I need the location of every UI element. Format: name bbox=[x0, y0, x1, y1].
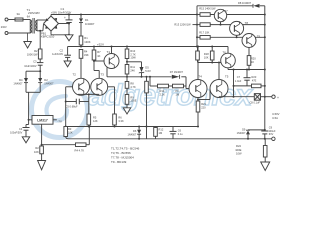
svg-text:R6: R6 bbox=[118, 115, 122, 119]
node rail collector joins bbox=[264, 14, 266, 16]
wire R8 R9 bbox=[126, 88, 128, 94]
svg-text:T5: T5 bbox=[225, 75, 229, 79]
diode D7 1N4007 bbox=[172, 75, 180, 79]
transformer T1 230V/48V bbox=[29, 20, 31, 34]
svg-text:1M: 1M bbox=[159, 131, 163, 135]
resistor R16 bbox=[200, 23, 210, 27]
node D5 bottom bbox=[141, 76, 143, 78]
svg-text:D2: D2 bbox=[44, 78, 48, 82]
input terminal live bbox=[5, 18, 8, 21]
svg-text:C8 0.1uF: C8 0.1uF bbox=[250, 102, 261, 105]
wire R3 curve to L2 bbox=[66, 137, 69, 139]
transistor T6 BC556 bbox=[221, 53, 236, 68]
svg-text:100E: 100E bbox=[235, 148, 241, 152]
svg-text:1N4007: 1N4007 bbox=[85, 22, 95, 26]
wire R17 row collector row T9 bbox=[210, 36, 265, 38]
svg-text:R3: R3 bbox=[68, 127, 72, 131]
capacitor C6 bbox=[172, 127, 174, 132]
node R20 bottom bbox=[248, 69, 250, 71]
transistor T2 BC546 bbox=[73, 78, 90, 95]
wire R24 ground bbox=[264, 157, 266, 162]
svg-text:2.2K: 2.2K bbox=[160, 92, 166, 96]
wire emitter bracket bbox=[78, 93, 99, 95]
wire T2 base bbox=[66, 86, 73, 88]
wire R21 L1 bbox=[197, 112, 199, 127]
wire R10 R11 bbox=[126, 59, 128, 65]
node T1 base tee bbox=[93, 60, 95, 62]
node right rail wires bbox=[264, 69, 266, 71]
wire R4b to T2 bbox=[80, 58, 82, 78]
wire T5 base bbox=[198, 99, 210, 101]
resistor R20 1K bbox=[247, 56, 251, 66]
transistor T4 BC546 bbox=[189, 80, 207, 98]
wire emitter row y69.5 bbox=[228, 69, 265, 71]
node bus R16 row bbox=[196, 24, 198, 26]
svg-text:100uF/50V: 100uF/50V bbox=[10, 131, 23, 134]
transistor T8 MJ15004 bbox=[230, 21, 244, 35]
wire tee to D4 bbox=[26, 70, 40, 72]
node R11 wire bbox=[126, 76, 128, 78]
node R18 rail2 bbox=[197, 46, 199, 48]
diode D2 1N4007 bbox=[39, 71, 41, 78]
svg-text:230V: 230V bbox=[1, 26, 7, 29]
ground R2b bbox=[38, 161, 46, 170]
node L1 left bbox=[65, 126, 67, 128]
resistor R3 10K bbox=[64, 127, 68, 137]
wire T1 emitter bbox=[106, 67, 108, 77]
wire R9 ground bbox=[126, 104, 128, 108]
svg-text:130K: 130K bbox=[84, 40, 90, 44]
wire T6 emitter bbox=[227, 68, 229, 70]
resistor R10 2.7K 10W bbox=[126, 47, 128, 50]
wire top D8 row bbox=[197, 5, 253, 7]
node LM317 input bbox=[28, 119, 30, 121]
wire C5 row bbox=[66, 101, 76, 103]
pin LM317 adj bbox=[41, 124, 43, 145]
svg-text:C9: C9 bbox=[269, 125, 273, 129]
diode D4 1N4007 bbox=[24, 78, 28, 82]
capacitor C3 10uF/100V bbox=[37, 62, 43, 64]
svg-text:R7: R7 bbox=[97, 50, 101, 54]
svg-text:T7,T8 - MJ15004: T7,T8 - MJ15004 bbox=[111, 155, 134, 159]
svg-text:R20: R20 bbox=[251, 56, 256, 60]
ground C4 bbox=[22, 137, 30, 143]
svg-text:D7 1N4007: D7 1N4007 bbox=[170, 70, 184, 74]
diode D1 1N4007 bbox=[80, 15, 82, 19]
transistor T7 MJ15004 bbox=[214, 9, 226, 21]
fuse F1 3A bbox=[15, 18, 23, 21]
svg-text:4.7K: 4.7K bbox=[130, 85, 136, 89]
ground C2 bbox=[64, 61, 71, 67]
wire T5 emitter bbox=[218, 96, 220, 99]
pin LM317 in bbox=[29, 119, 32, 121]
node C1 top bbox=[68, 14, 70, 16]
svg-text:3.3K: 3.3K bbox=[118, 119, 124, 123]
svg-text:33K: 33K bbox=[84, 53, 89, 57]
wire D2 D4 join bbox=[26, 91, 40, 93]
wire T4 base bbox=[185, 77, 187, 89]
transistor T5 BC546 bbox=[210, 80, 228, 98]
node D6 L1 bbox=[138, 126, 140, 128]
resistor R23 47E bbox=[252, 84, 262, 88]
node C9 L2 bbox=[264, 138, 266, 140]
node R21 L1 bbox=[197, 126, 199, 128]
svg-text:D1: D1 bbox=[85, 18, 89, 22]
wire row y86 bbox=[149, 77, 151, 86]
capacitor C7 1uF bbox=[246, 70, 248, 78]
svg-text:6A: 6A bbox=[27, 14, 30, 18]
wire R5 L1 bbox=[88, 125, 90, 127]
wire R20 down bbox=[248, 65, 250, 69]
wire T7 emitter drop bbox=[220, 22, 222, 25]
node row stub bbox=[149, 76, 151, 78]
fuse C8 box bbox=[254, 94, 260, 101]
node emitter join bbox=[88, 93, 90, 95]
svg-text:1M: 1M bbox=[176, 92, 180, 96]
svg-text:R17 10K: R17 10K bbox=[199, 31, 209, 35]
node C1 bottom bbox=[68, 23, 70, 25]
svg-text:1N4007: 1N4007 bbox=[44, 81, 54, 85]
svg-text:LM317: LM317 bbox=[37, 119, 48, 123]
wire R2b to ground bbox=[41, 154, 43, 161]
svg-text:R1: R1 bbox=[84, 36, 88, 40]
svg-text:T4: T4 bbox=[199, 75, 203, 79]
resistor R2 100K/1W bbox=[38, 49, 42, 59]
ground C1 bbox=[65, 35, 73, 41]
wire T8 emitter drop bbox=[236, 35, 238, 37]
wire T1 collector bbox=[111, 47, 113, 54]
wire rail L2 bbox=[69, 138, 272, 140]
resistor R1 130K bbox=[79, 36, 83, 45]
resistor R4 4.7K bbox=[76, 143, 87, 147]
wire zobel row bbox=[234, 85, 252, 87]
wire R16 row collector row T8 bbox=[210, 24, 265, 26]
svg-text:T6: T6 bbox=[223, 50, 227, 54]
svg-text:3A: 3A bbox=[17, 12, 21, 16]
wire secondary top to bridge bbox=[37, 19, 47, 21]
resistor R14 2.2K bbox=[158, 84, 169, 88]
svg-text:R5: R5 bbox=[93, 115, 97, 119]
svg-text:R23: R23 bbox=[252, 75, 257, 79]
resistor R8 4.7K bbox=[126, 77, 128, 82]
node T7 emitter bbox=[220, 24, 222, 26]
node R19 base row bbox=[211, 62, 213, 64]
wire T6 collector bbox=[227, 47, 229, 54]
svg-text:R11: R11 bbox=[130, 65, 135, 69]
svg-text:+: + bbox=[277, 96, 279, 100]
resistor R7 1K bbox=[93, 47, 95, 51]
svg-text:C6: C6 bbox=[178, 129, 182, 133]
bridge rectifier PB1 bbox=[51, 16, 59, 24]
wire live to fuse bbox=[8, 19, 15, 21]
wire rail L1 bbox=[66, 126, 198, 128]
node C5 join bbox=[65, 101, 67, 103]
svg-text:47E: 47E bbox=[252, 80, 257, 83]
ground R24 bbox=[261, 162, 270, 171]
node output riser bottom bbox=[233, 96, 235, 98]
svg-text:10K: 10K bbox=[34, 150, 39, 154]
resistor R17 bbox=[200, 36, 210, 40]
resistor R18 10K bbox=[197, 47, 199, 52]
svg-text:T9: T9 bbox=[257, 35, 261, 39]
svg-text:R13 120K/1W: R13 120K/1W bbox=[174, 23, 191, 27]
resistor R11 24K bbox=[125, 65, 129, 75]
svg-text:1K: 1K bbox=[251, 60, 254, 64]
svg-text:T9 - BD139: T9 - BD139 bbox=[111, 160, 127, 164]
wire top rail +56V bbox=[51, 14, 197, 16]
svg-text:+: + bbox=[64, 16, 66, 20]
svg-text:12K: 12K bbox=[93, 119, 98, 123]
node R7 rail2 bbox=[93, 46, 95, 48]
node R16b L1 bbox=[146, 126, 148, 128]
output terminal negative bbox=[272, 137, 275, 140]
wire bridge minus down bbox=[50, 31, 52, 35]
node bus rail1 bbox=[196, 14, 198, 16]
svg-text:T3: T3 bbox=[101, 72, 105, 76]
wire R4 to riser bbox=[86, 144, 89, 146]
wire secondary to R2 bbox=[39, 31, 41, 49]
diode D8 1N4007 bbox=[253, 4, 259, 8]
zener D5 5.6V bbox=[140, 67, 144, 72]
capacitor C9 100uF bbox=[261, 130, 268, 132]
wire output riser bbox=[233, 70, 235, 97]
node T5 base tee bbox=[197, 99, 199, 101]
wire to C4 bbox=[26, 124, 29, 126]
diode D9 1N4007 bbox=[247, 129, 249, 131]
capacitor C2 1uF/100V bbox=[64, 54, 71, 56]
wire T6 base row bbox=[198, 62, 221, 64]
transistor T9 BD139 bbox=[242, 34, 256, 48]
wire bridge ac right bbox=[59, 23, 70, 25]
wire T3 base bbox=[108, 86, 115, 88]
wire R17 stub bbox=[197, 36, 200, 38]
node D5 tee bbox=[126, 61, 128, 63]
ground R9 bbox=[123, 108, 131, 114]
node R10 rail2 bbox=[126, 46, 128, 48]
input terminal neutral bbox=[5, 32, 8, 35]
node D4 tee bbox=[39, 70, 41, 72]
resistor R21 220 bbox=[196, 101, 200, 112]
svg-text:10uF/100V: 10uF/100V bbox=[24, 65, 37, 68]
svg-text:D9: D9 bbox=[242, 127, 246, 131]
wire neutral to transformer bbox=[8, 32, 30, 34]
wire R7 to T3 collector bbox=[93, 60, 95, 71]
node T8 emitter bbox=[236, 36, 238, 38]
svg-text:R4 4.7K: R4 4.7K bbox=[75, 149, 85, 153]
transistor T1 BC546 bbox=[104, 54, 119, 69]
svg-text:0.1u: 0.1u bbox=[178, 133, 183, 136]
node D6 L2 bbox=[138, 138, 140, 140]
svg-text:T7: T7 bbox=[224, 9, 228, 13]
wire bus bbox=[196, 6, 198, 47]
wire R15 to T7 and collector row bbox=[210, 14, 265, 16]
node bus rail2 bbox=[196, 46, 198, 48]
svg-text:1uF/100V: 1uF/100V bbox=[52, 53, 63, 56]
svg-text:C7: C7 bbox=[237, 75, 241, 79]
svg-text:T1,T2,T4,T5 - BC546: T1,T2,T4,T5 - BC546 bbox=[111, 146, 140, 150]
svg-text:10K: 10K bbox=[204, 55, 209, 59]
svg-text:D6: D6 bbox=[133, 129, 137, 133]
resistor R6 3.3K bbox=[113, 114, 117, 125]
wire R13 stub bbox=[193, 24, 198, 26]
capacitor C5 0.68uF bbox=[75, 99, 77, 105]
wire R16 stub bbox=[197, 24, 200, 26]
node secondary-R2 bbox=[39, 30, 41, 32]
svg-text:+52V: +52V bbox=[97, 42, 104, 46]
svg-text:1K: 1K bbox=[97, 54, 100, 58]
svg-text:100K/1W: 100K/1W bbox=[27, 53, 38, 57]
node T5 collector bbox=[218, 62, 220, 64]
wire R1 to rail2 bbox=[80, 45, 82, 47]
ground transformer frame bbox=[27, 33, 29, 42]
svg-text:D5: D5 bbox=[145, 66, 149, 70]
wire fuse to transformer bbox=[23, 19, 30, 21]
svg-text:10K: 10K bbox=[68, 131, 73, 135]
wire T4 collector bbox=[197, 47, 199, 80]
node bus R17 row bbox=[196, 36, 198, 38]
svg-text:63V: 63V bbox=[269, 133, 274, 136]
diode D6 1N4007 bbox=[138, 127, 140, 130]
node output riser top bbox=[233, 69, 235, 71]
capacitor C4 100uF/50V bbox=[23, 127, 30, 129]
wire D9 tie bbox=[248, 129, 265, 131]
svg-text:0-50V: 0-50V bbox=[272, 112, 279, 116]
wire T5 collector bbox=[218, 63, 220, 80]
svg-text:R18: R18 bbox=[204, 52, 209, 56]
watermark logo and text bbox=[32, 79, 254, 138]
node R16b top bbox=[146, 76, 148, 78]
node D9 L2 bbox=[247, 138, 249, 140]
svg-text:100E: 100E bbox=[130, 99, 136, 103]
svg-text:R24: R24 bbox=[236, 144, 241, 148]
resistor R13b 1M bbox=[173, 84, 184, 88]
svg-text:C1: C1 bbox=[61, 7, 65, 11]
node R5 L1 bbox=[88, 126, 90, 128]
svg-text:C3: C3 bbox=[33, 59, 37, 63]
svg-text:D4: D4 bbox=[19, 78, 23, 82]
wire R11 down bbox=[126, 74, 128, 77]
svg-text:10W: 10W bbox=[130, 56, 136, 60]
resistor R5 12K bbox=[87, 114, 91, 125]
svg-text:R2: R2 bbox=[34, 49, 38, 53]
node R19 rail2 bbox=[211, 46, 213, 48]
wire R6 L1 bbox=[114, 125, 116, 127]
wire rail2 to C2 bbox=[67, 47, 69, 56]
capacitor C1 10mF/100V bbox=[68, 15, 70, 20]
svg-text:10W: 10W bbox=[236, 152, 242, 156]
output terminal positive bbox=[272, 95, 275, 98]
node D1 rail bbox=[80, 14, 82, 16]
transistor T3 BC546 bbox=[91, 78, 108, 95]
node T1 collector rail2 bbox=[111, 46, 113, 48]
svg-text:C5 0.68uF: C5 0.68uF bbox=[66, 105, 79, 109]
svg-text:1N4007: 1N4007 bbox=[237, 132, 246, 135]
wire R15 stub bbox=[197, 14, 200, 16]
wire R2 to C3 bbox=[39, 59, 41, 62]
svg-text:R21: R21 bbox=[201, 102, 206, 106]
resistor R24 100E 10W bbox=[264, 139, 266, 146]
resistor R16b 1K bbox=[146, 77, 148, 82]
svg-text:1.0uF: 1.0uF bbox=[235, 80, 242, 83]
wire adj to R4 bbox=[42, 144, 76, 146]
node R6 L1 bbox=[114, 126, 116, 128]
svg-text:C4: C4 bbox=[19, 127, 23, 131]
node T4 collector bbox=[197, 46, 199, 48]
wire bridge plus up bbox=[50, 15, 52, 17]
wire secondary bottom bbox=[37, 30, 43, 32]
resistor R12 1M bbox=[155, 127, 157, 128]
node R1 rail2 bbox=[80, 46, 82, 48]
wire T4 emitter bbox=[197, 98, 199, 102]
svg-text:R12: R12 bbox=[159, 128, 164, 132]
wire feedback down bbox=[65, 102, 67, 127]
resistor R15 bbox=[200, 13, 210, 17]
resistor R9 100E bbox=[125, 95, 129, 105]
node C7 top bbox=[246, 69, 248, 71]
wire rail2 +52V bbox=[68, 46, 228, 48]
svg-text:T8: T8 bbox=[245, 21, 249, 25]
svg-text:5.6V: 5.6V bbox=[145, 69, 151, 73]
svg-text:R15 140K/1W: R15 140K/1W bbox=[199, 7, 216, 11]
svg-text:adgetronicx: adgetronicx bbox=[88, 79, 253, 112]
regulator U1 LM317 bbox=[32, 116, 53, 125]
wire VAS row bbox=[107, 76, 172, 78]
node adj junction bbox=[41, 144, 43, 146]
svg-text:1N4007: 1N4007 bbox=[13, 81, 23, 85]
svg-text:T3,T6 - BC556: T3,T6 - BC556 bbox=[111, 151, 131, 155]
svg-text:-7V: -7V bbox=[58, 120, 62, 124]
svg-text:T2: T2 bbox=[73, 72, 77, 76]
pin LM317 out bbox=[53, 119, 57, 121]
wire down to LM317 bbox=[28, 92, 30, 124]
svg-text:R4: R4 bbox=[84, 50, 88, 54]
resistor R19 10K bbox=[211, 47, 213, 52]
svg-text:R2: R2 bbox=[35, 146, 39, 150]
wire D5 top bbox=[127, 61, 142, 63]
resistor R4b 33K bbox=[79, 50, 83, 59]
wire T9 emitter bbox=[248, 48, 250, 56]
svg-text:220: 220 bbox=[201, 106, 206, 110]
wire T1 base bbox=[94, 60, 104, 62]
svg-text:T1: T1 bbox=[107, 50, 111, 54]
resistor R2b 10K bbox=[40, 146, 44, 154]
node zobel left bbox=[233, 85, 235, 87]
svg-text:0-5A: 0-5A bbox=[272, 116, 278, 120]
svg-text:24K: 24K bbox=[130, 68, 135, 72]
svg-text:D8 1N4007: D8 1N4007 bbox=[238, 1, 252, 5]
wire right rail bbox=[264, 6, 266, 131]
wire output bbox=[219, 96, 254, 98]
svg-text:1N4007: 1N4007 bbox=[128, 133, 137, 136]
svg-text:230V/48V: 230V/48V bbox=[28, 11, 40, 15]
